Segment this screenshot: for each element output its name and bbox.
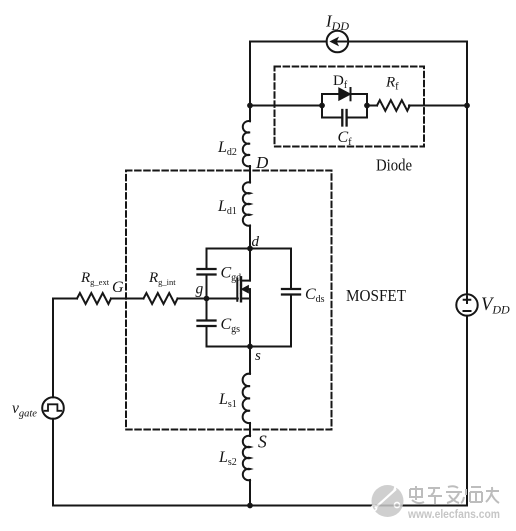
node d	[247, 246, 253, 252]
wire gate to mosfet	[178, 298, 238, 300]
wire top rail left segment	[250, 41, 327, 43]
wire right rail upper	[466, 42, 468, 295]
wire right branch upper (d to C_ds)	[290, 249, 292, 290]
svg-text:G: G	[112, 279, 124, 296]
wire L_s2 to bottom rail	[249, 480, 251, 506]
wire R_f to right rail	[409, 105, 467, 107]
node junction drain-diode	[247, 103, 253, 109]
Diode dashed box	[275, 67, 425, 147]
svg-text:s: s	[255, 348, 261, 364]
resistor R_f	[377, 100, 410, 111]
capacitor C_f	[342, 110, 346, 126]
svg-text:IDD: IDD	[325, 12, 349, 34]
svg-text:Ls1: Ls1	[218, 391, 237, 410]
wire C_ds to cell bottom	[290, 295, 292, 347]
wire drain rail top	[249, 42, 251, 122]
node junction diode-right	[364, 103, 370, 109]
wire L_s1 to L_s2 / node S	[249, 423, 251, 436]
voltage source V_DD	[456, 294, 477, 315]
inductor L_d2	[243, 121, 250, 166]
diode D_f	[339, 88, 351, 100]
svg-text:Ld1: Ld1	[217, 198, 237, 217]
wire top rail right segment	[348, 41, 467, 43]
wire mosfet cell bottom	[207, 346, 292, 348]
capacitor C_gs	[198, 321, 216, 327]
wire left branch upper (d to C_gd)	[206, 249, 208, 270]
wire between gate resistors	[111, 298, 144, 300]
svg-text:Rf: Rf	[385, 75, 399, 93]
wire C_gd to g node	[206, 275, 208, 321]
node g	[204, 296, 210, 302]
wire diode parallel cell	[322, 94, 367, 118]
wire C_gs to cell bottom	[206, 326, 208, 347]
MOSFET dashed box	[126, 171, 332, 430]
svg-text:www.elecfans.com: www.elecfans.com	[407, 507, 500, 521]
wire left rail upper	[52, 299, 54, 398]
wire gate lead-in	[53, 298, 77, 300]
svg-text:MOSFET: MOSFET	[346, 286, 407, 305]
wire L_d1 to node d	[249, 226, 251, 249]
node junction right-diode	[464, 103, 470, 109]
node junction bottom-source	[247, 503, 253, 509]
svg-text:Cf: Cf	[338, 129, 353, 148]
node s	[247, 344, 253, 350]
svg-text:Cgs: Cgs	[221, 316, 241, 335]
capacitor C_ds	[282, 289, 300, 295]
wire bottom rail	[53, 505, 467, 507]
svg-text:vgate: vgate	[12, 400, 37, 420]
wire diode line left	[250, 105, 322, 107]
wire left rail lower	[52, 419, 54, 506]
wire to R_f	[367, 105, 377, 107]
svg-text:VDD: VDD	[481, 295, 510, 317]
svg-text:Rg_int: Rg_int	[148, 270, 176, 287]
watermark logo	[371, 481, 403, 517]
svg-text:Ld2: Ld2	[217, 139, 237, 158]
wire drain vertical into mosfet	[249, 249, 251, 281]
svg-text:Df: Df	[333, 73, 348, 91]
wire L_d2 to L_d1 / node D	[249, 166, 251, 183]
svg-text:g: g	[196, 281, 204, 298]
resistor R_g_ext	[77, 293, 111, 304]
svg-text:D: D	[255, 153, 269, 172]
capacitor C_gd	[198, 269, 216, 275]
watermark chinese text 电子发烧友	[410, 486, 499, 504]
node junction diode-left	[319, 103, 325, 109]
current source I_DD	[327, 31, 349, 53]
wire source vertical out of mosfet	[249, 299, 251, 347]
svg-text:Rg_ext: Rg_ext	[80, 270, 110, 287]
wire mosfet cell top	[207, 248, 292, 250]
inductor L_s1	[243, 374, 250, 423]
inductor L_s2	[243, 436, 250, 480]
inductor L_d1	[243, 182, 250, 225]
svg-text:Diode: Diode	[376, 156, 412, 175]
resistor R_g_int	[144, 293, 178, 304]
svg-text:Ls2: Ls2	[218, 449, 237, 468]
svg-text:Cds: Cds	[305, 286, 325, 305]
wire s to L_s1	[249, 347, 251, 374]
transistor Q1 (MOSFET symbol)	[237, 277, 250, 301]
wire right rail lower	[466, 316, 468, 506]
source v_gate	[42, 397, 64, 419]
svg-text:S: S	[258, 432, 267, 452]
